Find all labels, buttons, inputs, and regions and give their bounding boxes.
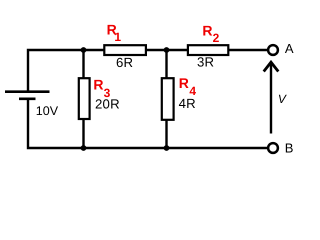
svg-text:2: 2 <box>213 31 220 45</box>
svg-text:1: 1 <box>114 30 121 44</box>
svg-text:R: R <box>202 22 212 38</box>
svg-text:6R: 6R <box>116 55 133 70</box>
svg-text:V: V <box>278 92 287 106</box>
svg-text:3R: 3R <box>197 55 214 70</box>
svg-text:R: R <box>179 75 189 91</box>
svg-text:20R: 20R <box>95 96 120 111</box>
svg-text:10V: 10V <box>36 104 59 118</box>
svg-text:R: R <box>93 77 103 93</box>
svg-text:A: A <box>285 41 294 56</box>
svg-text:4R: 4R <box>179 96 196 111</box>
svg-text:B: B <box>285 141 294 156</box>
